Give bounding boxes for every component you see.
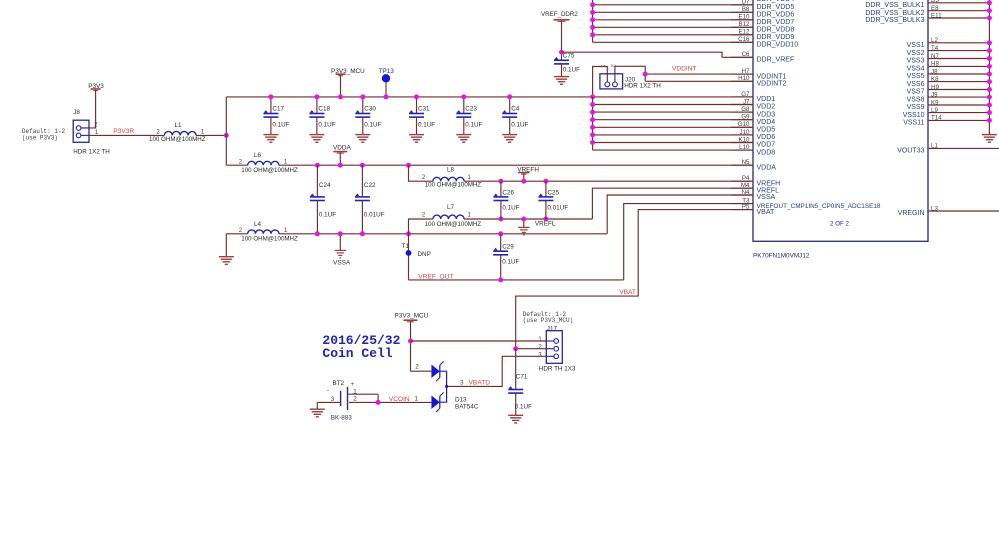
svg-text:J8: J8: [73, 109, 80, 116]
wire J20 pin1 to VDDINT: [615, 66, 645, 81]
D13 pin 2 label: [415, 363, 419, 370]
svg-text:VSS6: VSS6: [907, 81, 925, 88]
svg-text:-: -: [327, 387, 329, 394]
ground (VSSA): [333, 250, 351, 266]
svg-text:0.1UF: 0.1UF: [364, 122, 381, 129]
junctions rail VDDA: [315, 163, 411, 168]
junctions VDD bus: [590, 102, 595, 145]
svg-text:VREFH: VREFH: [757, 180, 781, 187]
svg-text:DNP: DNP: [418, 251, 431, 258]
wire VDDINT1: [645, 73, 753, 75]
svg-text:DDR_VDD6: DDR_VDD6: [757, 12, 795, 19]
wire VREF_DDR2 down: [561, 21, 563, 61]
L6 labels: [239, 152, 298, 174]
wire VCOIN: [349, 401, 431, 403]
net label P3V3R: [113, 128, 134, 135]
svg-text:VOUT33: VOUT33: [897, 148, 924, 155]
svg-text:L6: L6: [254, 152, 262, 159]
wire rail VREFL: [464, 218, 592, 220]
wire VREGIN to edge: [928, 210, 999, 212]
svg-text:VCOIN: VCOIN: [389, 396, 410, 403]
wire P3V3R: [89, 134, 164, 136]
wire VDDINT2: [645, 80, 753, 82]
svg-text:DDR_VDD10: DDR_VDD10: [757, 42, 799, 49]
D13 labels: [455, 396, 479, 410]
ground (C71): [508, 415, 523, 423]
svg-text:2: 2: [239, 160, 243, 166]
svg-text:2 OF 2: 2 OF 2: [830, 221, 849, 228]
svg-text:L8: L8: [447, 166, 455, 173]
svg-text:0.1UF: 0.1UF: [502, 259, 519, 266]
wire VREF_OUT: [409, 279, 624, 281]
power symbol P3V3_MCU (coin): [395, 312, 429, 321]
wire rail VSSA: [226, 233, 607, 235]
wire VREFH stub: [523, 173, 525, 181]
svg-text:VSS4: VSS4: [907, 66, 925, 73]
svg-text:2: 2: [422, 213, 426, 219]
svg-text:DDR_VDD4: DDR_VDD4: [757, 0, 795, 3]
svg-text:C75: C75: [563, 53, 575, 60]
svg-text:VBATD: VBATD: [469, 380, 491, 387]
svg-text:VSS7: VSS7: [907, 89, 925, 96]
BT2 pin numbers: [331, 388, 358, 403]
wire T1 stub: [408, 234, 410, 280]
J20 pin number 2 (rotated): [610, 64, 616, 67]
svg-text:VSS3: VSS3: [907, 58, 925, 65]
VDD bus vertical: [592, 97, 594, 150]
svg-text:1: 1: [284, 228, 288, 234]
node C29 bottom junction: [498, 277, 503, 282]
wires DDR_VDD5-10: [593, 5, 753, 43]
svg-text:100 OHM@100MHZ: 100 OHM@100MHZ: [241, 235, 298, 242]
wire J20 pin2 tap: [593, 67, 608, 97]
svg-text:VREFOUT_CMP1IN5_CP0IN5_ADC1SE1: VREFOUT_CMP1IN5_CP0IN5_ADC1SE18: [757, 203, 881, 210]
junctions rail VSSA: [315, 231, 503, 236]
diode D13 BAT54C dual schottky: [411, 361, 449, 412]
wire P3V3_MCU stub: [340, 75, 342, 97]
svg-text:100 OHM@100MHZ: 100 OHM@100MHZ: [425, 181, 482, 188]
battery BT2: [317, 382, 378, 410]
node C75 junction: [559, 50, 564, 55]
power symbol P3V3: [88, 83, 104, 91]
svg-text:VDD3: VDD3: [757, 111, 776, 118]
power symbol VDDA: [333, 145, 351, 154]
svg-text:VDD6: VDD6: [757, 134, 776, 141]
svg-text:C31: C31: [418, 105, 430, 112]
svg-text:0.1UF: 0.1UF: [511, 122, 528, 129]
svg-text:2: 2: [94, 122, 98, 128]
wire L8 jog: [409, 165, 433, 181]
svg-text:Coin Cell: Coin Cell: [322, 346, 392, 361]
BT2 labels: [331, 380, 353, 421]
net label VREF_OUT: [418, 274, 453, 281]
node pin2 junction: [513, 346, 518, 351]
svg-text:DDR_VDD8: DDR_VDD8: [757, 27, 795, 34]
connector J17 HDR TH 1X3: [546, 331, 562, 364]
svg-text:DDR_VDD5: DDR_VDD5: [757, 4, 795, 11]
svg-text:(use P3V3): (use P3V3): [22, 134, 58, 141]
svg-text:2: 2: [353, 395, 357, 402]
VSS bus vertical: [988, 0, 990, 135]
svg-text:VBAT: VBAT: [757, 209, 775, 216]
svg-text:P3V3_MCU: P3V3_MCU: [395, 312, 429, 319]
svg-text:100 OHM@100MHZ: 100 OHM@100MHZ: [241, 167, 298, 174]
wire VREFL to IC: [592, 188, 753, 219]
svg-text:L1: L1: [175, 122, 183, 129]
node J17 pin1 junction: [408, 339, 413, 344]
C75 labels: [563, 53, 580, 74]
svg-text:DDR_VDD9: DDR_VDD9: [757, 34, 795, 41]
inductor L6: [248, 161, 279, 165]
IC right pin names and numbers: [865, 0, 942, 217]
svg-text:BT2: BT2: [333, 380, 345, 387]
net label VBATD: [460, 380, 490, 387]
power symbol P3V3_MCU: [331, 68, 365, 76]
J17 labels: [539, 326, 576, 373]
connector J20 HDR 1X2 TH: [600, 74, 623, 89]
svg-text:2: 2: [415, 363, 419, 370]
net label VBAT: [619, 289, 636, 296]
capacitor C24 0.1UF: [310, 165, 336, 234]
svg-text:VREF_DDR2: VREF_DDR2: [541, 11, 578, 18]
svg-text:VSS9: VSS9: [907, 104, 925, 111]
svg-text:3: 3: [331, 396, 335, 403]
svg-text:2: 2: [239, 228, 243, 234]
svg-text:C71: C71: [516, 374, 528, 381]
svg-text:+: +: [350, 382, 354, 388]
svg-text:VSS5: VSS5: [907, 73, 925, 80]
node L1 junction: [224, 133, 229, 138]
L1 labels: [149, 122, 206, 143]
note default J8: [22, 128, 66, 141]
node VDDINT junction: [643, 72, 648, 77]
svg-text:D13: D13: [455, 396, 467, 403]
IC left pins with numbers: [731, 0, 881, 216]
svg-text:VDDA: VDDA: [333, 145, 351, 152]
svg-text:1: 1: [201, 130, 205, 136]
svg-text:DDR_VSS_BULK2: DDR_VSS_BULK2: [865, 10, 924, 17]
wire pin2 row: [516, 348, 547, 350]
L8 labels: [422, 166, 482, 188]
svg-text:VDDINT: VDDINT: [672, 65, 697, 72]
svg-text:0.01UF: 0.01UF: [547, 205, 568, 212]
svg-text:C23: C23: [465, 105, 477, 112]
svg-text:0.1UF: 0.1UF: [465, 122, 482, 129]
svg-text:2: 2: [538, 345, 542, 351]
svg-text:P3V3_MCU: P3V3_MCU: [331, 68, 365, 75]
svg-text:1: 1: [414, 396, 418, 403]
svg-text:VDD5: VDD5: [757, 127, 776, 134]
wire VSSA to IC: [607, 195, 753, 234]
wire VREFL gnd stub: [523, 219, 525, 227]
svg-text:J17: J17: [547, 326, 558, 333]
svg-text:C24: C24: [319, 182, 331, 189]
wire VBAT: [516, 210, 753, 349]
VREFL label: [535, 220, 556, 227]
inductor L8: [433, 177, 464, 181]
svg-text:VDD7: VDD7: [757, 142, 776, 149]
svg-text:0.1UF: 0.1UF: [319, 212, 336, 219]
svg-text:C25: C25: [547, 189, 559, 196]
wire pin1 row: [411, 340, 547, 342]
wire BT2 gnd stub: [316, 402, 318, 409]
svg-text:P3V3: P3V3: [88, 83, 104, 90]
node VCOIN junction: [376, 400, 381, 405]
svg-text:VSS11: VSS11: [903, 120, 924, 127]
wire VSSA gnd stub: [339, 234, 341, 251]
wire rail VDDA: [226, 164, 753, 166]
svg-text:C22: C22: [364, 182, 376, 189]
svg-text:1: 1: [353, 388, 357, 395]
op-amp U1 MCU PK70FN1M0VMJ12 body: [753, 0, 928, 241]
ground (L4): [219, 257, 234, 265]
svg-text:0.1UF: 0.1UF: [515, 404, 532, 411]
capacitor C71 0.1UF: [508, 374, 532, 416]
connector J8 HDR 1X2 TH: [73, 120, 89, 142]
J8 pin numbers: [94, 122, 99, 136]
title 2016/25/32 Coin Cell: [322, 333, 400, 361]
svg-text:VREGIN: VREGIN: [898, 210, 925, 217]
L7 labels: [422, 204, 482, 228]
svg-text:C17: C17: [272, 105, 284, 112]
svg-text:VDD2: VDD2: [757, 104, 776, 111]
svg-text:0.01UF: 0.01UF: [364, 212, 385, 219]
svg-text:100 OHM@100MHZ: 100 OHM@100MHZ: [149, 136, 206, 143]
svg-text:VBAT: VBAT: [619, 289, 636, 296]
svg-text:0.1UF: 0.1UF: [502, 205, 519, 212]
svg-text:VDDINT2: VDDINT2: [757, 81, 787, 88]
svg-text:DDR_VREF: DDR_VREF: [757, 57, 795, 64]
J20 labels: [624, 77, 661, 90]
wire DDR_VREF: [562, 52, 754, 57]
svg-text:VSS8: VSS8: [907, 96, 925, 103]
IC label 2 OF 2: [830, 221, 849, 228]
wire VDDA stub: [339, 152, 341, 165]
svg-text:L4: L4: [254, 221, 262, 228]
L4 labels: [239, 221, 298, 243]
J20 pin number 1 (rotated): [599, 64, 605, 67]
wire VOUT33 to edge: [928, 147, 999, 149]
svg-text:C4: C4: [511, 105, 520, 112]
wires IC right pins to VSS bus: [928, 3, 989, 121]
power symbol VREFH: [517, 167, 539, 175]
svg-text:DDR_VSS_BULK1: DDR_VSS_BULK1: [865, 2, 924, 9]
svg-text:0.1UF: 0.1UF: [563, 66, 580, 73]
inductor L4: [248, 230, 279, 234]
capacitor C26 0.1UF: [493, 181, 519, 219]
junctions on rail P3V3_MCU: [268, 94, 595, 99]
J17 pin numbers: [538, 337, 542, 358]
wire left vertical: [225, 97, 227, 165]
svg-text:BAT54C: BAT54C: [455, 404, 479, 411]
inductor L1: [164, 131, 226, 135]
svg-text:VREF_OUT: VREF_OUT: [418, 274, 453, 281]
power symbol VREF_DDR2: [541, 11, 578, 21]
svg-text:3: 3: [538, 352, 542, 358]
svg-text:HDR 1X2 TH: HDR 1X2 TH: [624, 82, 661, 89]
wire rail P3V3_MCU: [226, 96, 753, 98]
svg-text:C29: C29: [502, 243, 514, 250]
svg-text:3: 3: [460, 380, 464, 387]
svg-text:VDDA: VDDA: [757, 164, 777, 171]
svg-text:BK-883: BK-883: [331, 414, 353, 421]
inductor L7: [433, 215, 464, 219]
svg-text:VSS10: VSS10: [903, 112, 925, 119]
svg-text:VSSA: VSSA: [757, 194, 776, 201]
net label VCOIN: [389, 396, 419, 403]
wire L7 jog: [409, 219, 433, 234]
svg-text:1: 1: [599, 64, 605, 67]
svg-text:DDR_VSS_BULK3: DDR_VSS_BULK3: [865, 17, 924, 24]
junctions rail VREFL: [498, 217, 548, 222]
wire C71 stub: [515, 349, 517, 390]
testpoint T1 DNP: [402, 243, 431, 258]
svg-text:1: 1: [468, 175, 472, 181]
note default J17: [523, 311, 573, 324]
capacitor C29 0.1UF: [493, 234, 519, 280]
svg-text:P3V3R: P3V3R: [113, 128, 134, 135]
J8 labels: [73, 109, 110, 156]
svg-text:VDDINT1: VDDINT1: [757, 73, 787, 80]
svg-text:C18: C18: [318, 105, 330, 112]
svg-text:HDR 1X2 TH: HDR 1X2 TH: [73, 148, 110, 155]
ground (C75): [554, 77, 569, 85]
svg-text:VDD8: VDD8: [757, 149, 776, 156]
svg-text:VSS1: VSS1: [907, 42, 925, 49]
svg-text:VSSA: VSSA: [333, 260, 351, 267]
wire rail VREFH: [464, 180, 753, 182]
capacitor C25 0.01UF: [538, 181, 568, 219]
svg-text:PK70FN1M0VMJ12: PK70FN1M0VMJ12: [753, 253, 810, 260]
wire P3V3 to J8 pin2: [82, 90, 96, 128]
svg-text:1: 1: [538, 337, 542, 343]
svg-text:2: 2: [610, 64, 616, 67]
wire pin3 to VBATD: [447, 356, 547, 386]
capacitor C75: [554, 57, 569, 77]
wire VREF_OUT to IC: [624, 204, 753, 280]
DDR_VDD bus vertical: [592, 0, 594, 42]
svg-text:100 OHM@100MHZ: 100 OHM@100MHZ: [425, 221, 482, 228]
capacitors C17 C18 C30 C31 C23 C4 0.1UF with grounds: [263, 97, 528, 142]
svg-text:HDR TH 1X3: HDR TH 1X3: [539, 365, 576, 372]
wire P3V3_MCU down: [410, 321, 412, 371]
svg-text:VDD4: VDD4: [757, 119, 776, 126]
ground (BT2): [310, 409, 325, 417]
svg-text:2: 2: [156, 130, 160, 136]
svg-text:TP13: TP13: [379, 68, 395, 75]
svg-text:C26: C26: [502, 189, 514, 196]
svg-text:C30: C30: [364, 105, 376, 112]
svg-text:VREFH: VREFH: [517, 167, 539, 174]
ground (VSS bus): [982, 135, 997, 143]
svg-text:DDR_VDD7: DDR_VDD7: [757, 19, 795, 26]
svg-text:L7: L7: [447, 204, 455, 211]
svg-text:D5: D5: [931, 0, 939, 4]
svg-text:T1: T1: [402, 243, 410, 250]
junctions DDR_VDD bus: [590, 2, 595, 37]
junctions rail VREFH: [498, 179, 548, 184]
svg-text:VSS2: VSS2: [907, 50, 925, 57]
wire L4 gnd stub: [225, 234, 227, 257]
svg-text:1: 1: [284, 160, 288, 166]
net label VDDINT: [672, 65, 697, 72]
capacitor C22 0.01UF: [355, 165, 385, 234]
svg-text:0.1UF: 0.1UF: [318, 122, 335, 129]
testpoint TP13: [379, 68, 395, 97]
svg-text:0.1UF: 0.1UF: [272, 122, 289, 129]
svg-text:1: 1: [468, 213, 472, 219]
svg-text:VDD1: VDD1: [757, 96, 776, 103]
wires VDD2-VDD8: [593, 105, 753, 151]
IC value PK70FN1M0VMJ12: [753, 253, 810, 260]
svg-text:2: 2: [422, 175, 426, 181]
svg-text:(use P3V3_MCU): (use P3V3_MCU): [523, 317, 573, 324]
svg-text:0.1UF: 0.1UF: [418, 122, 435, 129]
ground (VREFL): [518, 227, 530, 235]
junctions on VSS bus: [987, 0, 992, 123]
